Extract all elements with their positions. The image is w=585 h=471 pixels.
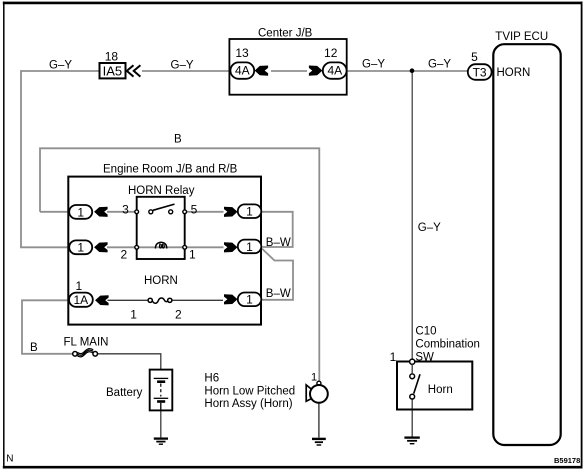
svg-text:B: B — [30, 342, 38, 354]
svg-text:G–Y: G–Y — [362, 59, 385, 71]
svg-text:N: N — [6, 454, 13, 465]
svg-text:B–W: B–W — [266, 237, 291, 249]
svg-text:1: 1 — [130, 308, 137, 322]
svg-text:13: 13 — [235, 46, 249, 60]
svg-text:G–Y: G–Y — [428, 59, 451, 71]
svg-text:Combination: Combination — [415, 339, 480, 351]
svg-text:C10: C10 — [415, 326, 436, 338]
svg-text:H6: H6 — [204, 373, 219, 385]
svg-text:4A: 4A — [235, 64, 250, 78]
svg-text:2: 2 — [175, 308, 182, 322]
svg-text:2: 2 — [121, 247, 128, 261]
svg-text:G–Y: G–Y — [418, 222, 441, 234]
svg-text:T3: T3 — [473, 65, 487, 79]
svg-text:B: B — [174, 134, 182, 146]
svg-text:Center J/B: Center J/B — [258, 28, 313, 40]
svg-text:18: 18 — [105, 50, 119, 64]
svg-text:HORN: HORN — [497, 67, 531, 79]
svg-text:G–Y: G–Y — [171, 60, 194, 72]
svg-text:1: 1 — [76, 279, 83, 293]
svg-text:HORN Relay: HORN Relay — [128, 185, 195, 197]
svg-text:B59178: B59178 — [554, 456, 580, 465]
svg-text:1: 1 — [77, 241, 84, 255]
svg-text:Battery: Battery — [106, 387, 143, 399]
svg-text:4A: 4A — [327, 64, 342, 78]
svg-text:1: 1 — [311, 372, 317, 384]
svg-text:B–W: B–W — [266, 288, 291, 300]
svg-text:1: 1 — [77, 206, 84, 220]
svg-text:1: 1 — [246, 205, 253, 219]
svg-text:IA5: IA5 — [103, 64, 123, 79]
svg-text:G–Y: G–Y — [49, 60, 72, 72]
svg-text:1: 1 — [246, 293, 253, 307]
svg-text:1: 1 — [189, 247, 196, 261]
svg-text:1: 1 — [246, 240, 253, 254]
svg-text:5: 5 — [471, 50, 478, 64]
svg-text:Horn Low Pitched: Horn Low Pitched — [204, 385, 295, 397]
svg-text:12: 12 — [324, 46, 338, 60]
svg-text:1A: 1A — [73, 293, 88, 307]
svg-text:Engine Room J/B and R/B: Engine Room J/B and R/B — [103, 163, 238, 175]
svg-text:3: 3 — [122, 202, 129, 216]
svg-text:TVIP ECU: TVIP ECU — [495, 31, 548, 43]
svg-text:1: 1 — [390, 350, 397, 364]
svg-text:FL MAIN: FL MAIN — [64, 336, 109, 348]
svg-text:HORN: HORN — [144, 275, 178, 287]
svg-text:Horn Assy (Horn): Horn Assy (Horn) — [204, 398, 292, 410]
svg-text:5: 5 — [191, 202, 198, 216]
svg-text:Horn: Horn — [428, 384, 453, 396]
